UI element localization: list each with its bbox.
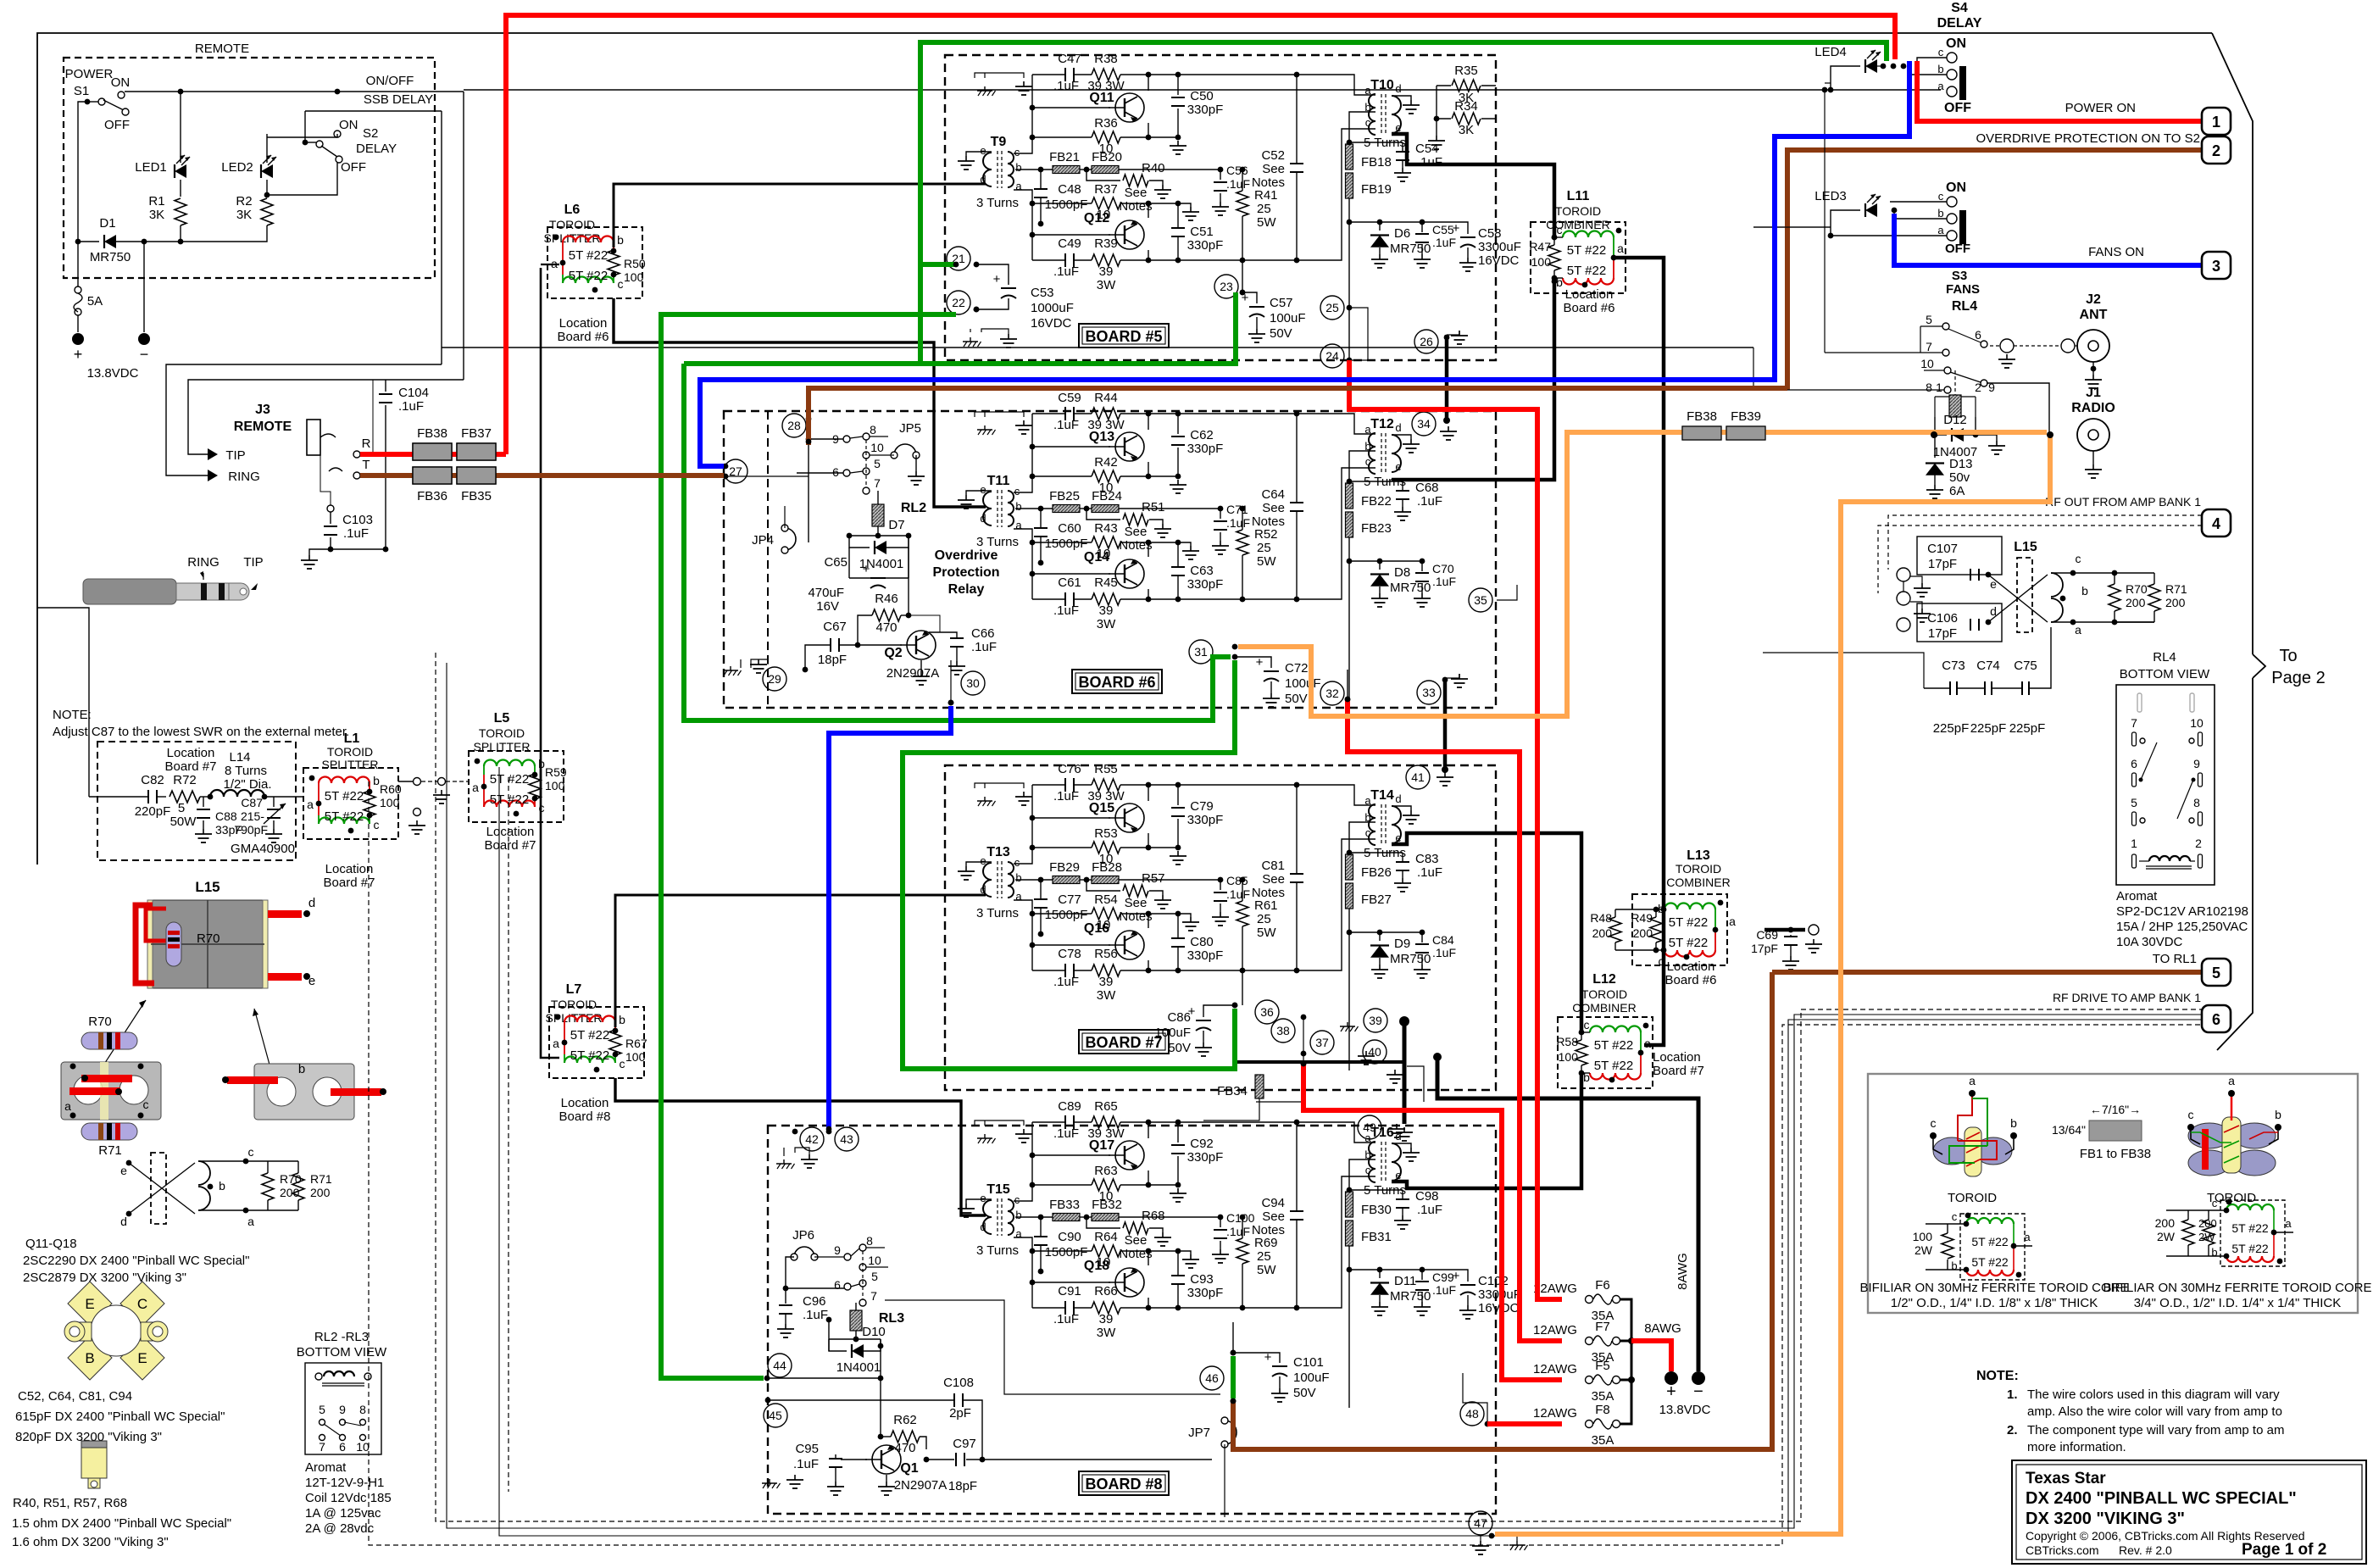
svg-text:2.: 2. [2007,1423,2018,1437]
svg-text:POWER: POWER [65,67,114,81]
svg-text:c: c [1931,1116,1937,1130]
svg-text:FB19: FB19 [1361,182,1392,197]
jumper JP5 [891,444,920,459]
wire LED1 [180,92,181,163]
box 1 [2202,108,2231,135]
battery - terminal [143,242,145,332]
svg-text:.1uF: .1uF [1053,1126,1079,1141]
transistor Q1 [872,1445,901,1474]
board #5 dashed outline [945,55,1496,360]
svg-text:5W: 5W [1257,554,1276,569]
svg-text:C50: C50 [1190,89,1214,103]
L6 top coil [562,242,564,251]
L15 red loops [136,905,154,983]
svg-text:b: b [1937,63,1943,75]
svg-text:C97: C97 [953,1437,976,1451]
svg-text:See: See [1125,896,1148,910]
ferrite bead FB33 [1053,1214,1080,1221]
resistor R57 [1086,880,1120,891]
svg-text:C89: C89 [1058,1099,1081,1114]
wire T secondary a to bottom bus [1014,900,1032,970]
capacitor C69 17pF [1764,928,1805,932]
wire green bottom rail [684,292,1236,364]
svg-text:C75: C75 [2014,659,2037,673]
svg-text:330pF: 330pF [1187,948,1224,963]
arrows to L15 [102,1000,146,1068]
svg-text:3 Turns: 3 Turns [976,1243,1019,1258]
svg-text:39: 39 [1099,264,1114,279]
svg-text:FB23: FB23 [1361,521,1392,536]
fuse F5 35A [1586,1376,1593,1384]
svg-text:b: b [373,774,380,787]
L11 top coil [1563,231,1614,237]
svg-text:5T #22: 5T #22 [1594,1059,1633,1073]
wire to Q1 [880,1339,881,1437]
svg-text:D8: D8 [1394,565,1410,580]
svg-text:Q12: Q12 [1084,211,1109,225]
capacitor C102 [1422,1270,1468,1282]
svg-text:RF OUT FROM AMP BANK 1: RF OUT FROM AMP BANK 1 [2045,495,2201,509]
svg-text:215-: 215- [241,809,264,823]
svg-text:9: 9 [834,1243,841,1257]
svg-text:TOROID: TOROID [479,726,525,740]
svg-text:3W: 3W [1097,1326,1116,1340]
svg-text:FB27: FB27 [1361,892,1392,907]
svg-text:Board #6: Board #6 [1665,973,1717,987]
svg-text:OVERDRIVE PROTECTION ON TO S2: OVERDRIVE PROTECTION ON TO S2 [1976,131,2201,146]
wire node 33 stub [1443,678,1448,770]
svg-text:Location: Location [1653,1050,1701,1065]
svg-text:1A @ 125vac: 1A @ 125vac [305,1506,381,1521]
ferrite bead FB35 [457,467,496,484]
svg-text:C88: C88 [215,809,237,823]
svg-text:10: 10 [870,441,884,454]
svg-text:8: 8 [2193,796,2200,809]
svg-text:7: 7 [1926,340,1932,353]
svg-text:10A 30VDC: 10A 30VDC [2116,935,2183,949]
wire ON/OFF rail [125,91,464,92]
svg-text:C80: C80 [1190,935,1214,949]
svg-text:D11: D11 [1394,1274,1416,1288]
svg-text:c: c [1014,485,1020,498]
svg-text:R65: R65 [1094,1099,1118,1114]
svg-text:R55: R55 [1094,762,1118,776]
svg-text:2: 2 [2195,837,2202,850]
TIP arrow [208,448,218,460]
svg-text:RING: RING [187,555,220,570]
box 3 [2202,252,2231,279]
svg-text:.1uF: .1uF [1053,79,1079,93]
svg-text:C61: C61 [1058,575,1081,590]
fuse 5A [75,286,81,293]
transformer T11 [983,492,992,525]
svg-text:FB28: FB28 [1092,860,1122,875]
inductor L14 coil [210,790,264,797]
node 36 [1255,1000,1279,1024]
ground at input transformer [966,491,992,495]
svg-text:C108: C108 [943,1376,974,1390]
svg-text:330pF: 330pF [1187,813,1224,827]
svg-text:Q16: Q16 [1084,921,1109,936]
svg-text:D6: D6 [1394,226,1410,241]
svg-text:3K: 3K [149,208,164,222]
wire T secondary c to top bus [1014,785,1032,864]
svg-text:Texas Star: Texas Star [2026,1470,2106,1487]
svg-text:R72: R72 [173,773,197,787]
svg-text:R58: R58 [1556,1035,1578,1048]
capacitor C67 18pF [839,644,858,646]
diode D9 [1349,932,1380,941]
svg-text:J2: J2 [2086,292,2101,307]
wire red node48 to F8 [1487,1421,1562,1426]
svg-text:.1uF: .1uF [1226,887,1250,901]
L6 bottom coil [562,275,564,283]
svg-text:T11: T11 [987,474,1010,488]
svg-text:Location: Location [1565,287,1614,302]
svg-text:+: + [863,562,870,576]
svg-text:C106: C106 [1927,611,1958,626]
wire FB to diode row [1348,537,1350,699]
board #7 dashed outline [945,765,1496,1090]
wire bottom rail [1032,1307,1065,1309]
svg-text:25: 25 [1257,541,1271,555]
ferrite bead FB19 [1346,173,1353,198]
capacitor C100 [1220,1217,1221,1227]
svg-text:FB32: FB32 [1092,1198,1122,1212]
capacitor C51 [1177,203,1179,227]
To Page 2 bracket [2212,33,2253,654]
svg-text:BOARD #6: BOARD #6 [1078,674,1155,691]
svg-text:b: b [298,1062,305,1076]
svg-text:BOTTOM VIEW: BOTTOM VIEW [2120,667,2210,681]
svg-text:35A: 35A [1592,1389,1614,1404]
svg-text:R67: R67 [625,1037,647,1050]
svg-text:5T #22: 5T #22 [325,809,364,824]
svg-text:34: 34 [1417,417,1431,431]
svg-text:FB31: FB31 [1361,1230,1392,1244]
ferrite bead FB38 [413,443,452,460]
resistor R49 [1650,917,1662,942]
capacitor C79 [1177,785,1179,805]
right winding schematic [2220,1200,2285,1266]
svg-text:39: 39 [1099,1312,1114,1326]
wire red top rail [506,15,1895,454]
svg-text:.1uF: .1uF [1417,155,1442,170]
svg-text:Rev. # 2.0: Rev. # 2.0 [2119,1543,2172,1557]
svg-text:C70: C70 [1432,562,1454,575]
svg-text:C: C [137,1296,147,1312]
svg-text:200: 200 [1592,926,1613,940]
svg-text:FB33: FB33 [1049,1198,1080,1212]
svg-text:R50: R50 [624,257,646,270]
wire green node31 link [684,364,1231,720]
svg-text:13.8VDC: 13.8VDC [1659,1403,1711,1417]
svg-text:LED2: LED2 [221,160,253,175]
capacitor C94 [1290,1210,1303,1212]
svg-text:c: c [374,818,380,831]
svg-text:REMOTE: REMOTE [234,420,292,434]
svg-text:D7: D7 [888,518,904,532]
wire brown node28 rail [809,388,1787,445]
svg-text:5: 5 [2212,965,2220,981]
svg-text:1: 1 [2212,114,2220,131]
svg-text:Location: Location [325,862,374,876]
svg-text:S4: S4 [1951,1,1968,15]
svg-text:3W: 3W [1097,617,1116,631]
svg-text:.1uF: .1uF [971,640,997,654]
svg-text:e: e [980,483,986,496]
svg-text:100: 100 [1559,1050,1579,1064]
node 25 [1320,296,1344,320]
svg-text:Board #8: Board #8 [559,1109,611,1124]
svg-text:d: d [1395,792,1401,805]
ferrite bead FB25 [1053,505,1080,513]
svg-text:C104: C104 [398,386,429,400]
resistor R59 [529,774,541,799]
node 35 [1469,588,1492,612]
svg-text:4: 4 [2212,515,2220,532]
box 5 [2202,959,2231,986]
resistor R58 [1576,1040,1587,1065]
wire D1 row [78,241,99,242]
svg-text:5T #22: 5T #22 [490,772,529,787]
L5 top coil [483,766,485,775]
svg-text:JP6: JP6 [792,1228,814,1243]
svg-text:d: d [1395,82,1401,95]
svg-text:L15: L15 [2014,540,2037,554]
svg-text:RL4: RL4 [1952,299,1977,314]
svg-text:Q11: Q11 [1089,91,1114,105]
svg-text:200: 200 [2198,1217,2217,1230]
svg-text:.1uF: .1uF [1417,494,1442,509]
svg-text:a: a [307,798,314,811]
svg-text:C48: C48 [1058,182,1081,197]
resistor R51 [1086,509,1120,520]
svg-text:Aromat: Aromat [305,1460,347,1475]
node 21 [947,247,970,270]
wire T out d ground [1392,806,1411,810]
resistors R70 R71 200 [2073,572,2117,574]
wire FB to diode row [1348,1246,1350,1408]
svg-text:5T #22: 5T #22 [1669,915,1708,930]
wire OVERDRIVE brown [1787,150,2205,390]
svg-text:5W: 5W [1257,215,1276,230]
svg-text:TOROID: TOROID [1948,1191,1997,1205]
svg-text:Board #7: Board #7 [1653,1064,1704,1078]
svg-text:.1uF: .1uF [1432,575,1456,588]
svg-text:Location: Location [167,746,215,760]
node 42 [800,1127,824,1151]
svg-text:18pF: 18pF [818,653,847,667]
svg-text:FB1 to FB38: FB1 to FB38 [2080,1147,2151,1161]
svg-text:100uF: 100uF [1154,1026,1191,1040]
svg-text:50V: 50V [1270,326,1292,341]
svg-text:Relay: Relay [948,582,985,597]
svg-text:+: + [993,272,1001,286]
capacitor C97 18pF [926,1459,954,1460]
svg-text:3K: 3K [236,208,252,222]
resistor R34 3K [1452,113,1481,125]
wire red node32 to F7 [1348,699,1562,1341]
svg-text:RL2: RL2 [901,501,926,515]
wire LED2 [266,134,268,163]
svg-text:16VDC: 16VDC [1478,1301,1520,1315]
svg-text:c: c [2188,1108,2194,1121]
svg-text:D9: D9 [1394,937,1410,951]
wire b line [1015,508,1053,509]
svg-text:2: 2 [2212,142,2220,159]
capacitor C56 [1220,170,1221,180]
fuse F7 35A [1586,1337,1593,1345]
capacitor C104 [360,380,386,454]
J3 ground [331,454,386,549]
svg-text:RADIO: RADIO [2071,401,2115,415]
svg-text:9: 9 [2193,757,2200,770]
svg-text:8AWG: 8AWG [1676,1253,1690,1290]
node 32 [1320,681,1344,705]
svg-text:3W: 3W [1097,278,1116,292]
L12 top coil [1590,1026,1641,1032]
svg-text:R71: R71 [98,1143,122,1158]
svg-text:FB29: FB29 [1049,860,1080,875]
svg-text:7: 7 [319,1440,325,1454]
node 37 [1310,1031,1334,1054]
svg-text:R37: R37 [1094,182,1118,197]
svg-text:5T #22: 5T #22 [1567,264,1606,278]
svg-text:FB22: FB22 [1361,494,1392,509]
svg-text:5T #22: 5T #22 [1594,1038,1633,1053]
svg-text:10: 10 [2190,716,2203,730]
svg-text:13/64": 13/64" [2052,1123,2086,1137]
svg-text:FB30: FB30 [1361,1203,1392,1217]
svg-text:Q2: Q2 [884,646,902,660]
svg-text:RL3: RL3 [879,1311,904,1326]
wire bottom rail [1032,970,1065,971]
diode D1 MR750 [104,235,116,248]
capacitor C62 [1177,414,1179,434]
svg-text:D10: D10 [862,1325,886,1339]
svg-text:24: 24 [1325,349,1339,363]
wire orange node31 to J1 loop [1238,432,2047,716]
svg-text:c: c [1014,856,1020,869]
svg-text:R63: R63 [1094,1164,1118,1178]
wire S1 common [78,102,87,242]
svg-text:42: 42 [805,1132,819,1146]
board #8 dashed outline [768,1126,1496,1514]
relay RL2 coil [872,504,884,526]
capacitor C80 [1177,914,1179,937]
svg-text:8: 8 [866,1234,873,1248]
ferrite bead FB24 [1092,505,1119,513]
node 33 [1417,681,1441,704]
wire FB to diode row [1348,198,1350,360]
svg-text:TOROID: TOROID [1676,862,1721,876]
node 45 [764,1404,787,1427]
svg-text:8: 8 [1926,381,1932,394]
L7 bottom coil [564,1054,565,1063]
capacitor C60 [1040,509,1042,527]
ferrite bead FB22 [1346,483,1353,509]
page border [37,33,2212,865]
svg-text:L1: L1 [344,731,360,746]
wire TIP link [188,380,464,454]
node 43 [835,1127,859,1151]
8AWG red feed [1631,1341,1671,1371]
wire top rail [1032,784,1065,786]
svg-text:b: b [1556,275,1563,289]
transistor package picture [68,1282,112,1326]
svg-text:TOROID: TOROID [551,998,597,1011]
svg-text:100: 100 [1913,1230,1933,1243]
wire red node37 to F5 [1303,1064,1562,1380]
svg-text:5T #22: 5T #22 [2231,1242,2269,1255]
capacitor C92 [1177,1122,1179,1143]
svg-text:e: e [980,144,986,157]
svg-text:5T #22: 5T #22 [1971,1255,2009,1269]
svg-text:C73: C73 [1942,659,1965,673]
svg-text:100: 100 [1531,255,1552,269]
ground at input transformer [966,152,992,156]
svg-text:7: 7 [874,476,881,490]
wire L7-c to board8 T15 [615,1078,986,1215]
svg-text:18pF: 18pF [948,1479,977,1493]
svg-text:+: + [1666,1382,1676,1401]
svg-text:200: 200 [280,1186,300,1199]
diode D13 [1934,435,1936,458]
board label BOARD #8 [1079,1471,1169,1495]
svg-text:FB37: FB37 [461,426,492,441]
svg-text:See: See [1262,872,1285,887]
capacitor C64 [1290,502,1303,503]
svg-text:FB36: FB36 [417,489,447,503]
svg-text:8: 8 [359,1403,366,1416]
capacitor C57 100uF [1242,292,1257,303]
svg-text:R51: R51 [1142,500,1165,514]
svg-text:8 Turns: 8 Turns [225,764,267,778]
svg-text:T: T [362,458,370,472]
L1 top coil [318,783,320,792]
ferrite bead FB27 [1346,883,1353,909]
svg-text:25: 25 [1257,912,1271,926]
svg-text:c: c [618,277,624,291]
relay RL3 coil [850,1310,862,1331]
svg-text:1N4001: 1N4001 [836,1360,881,1375]
svg-text:1500pF: 1500pF [1045,537,1088,551]
svg-text:b: b [1951,1259,1957,1272]
svg-text:2SC2879 DX 3200 "Viking 3": 2SC2879 DX 3200 "Viking 3" [23,1271,186,1285]
svg-text:+: + [1453,221,1460,236]
svg-text:COMBINER: COMBINER [1666,876,1730,889]
wire to L1 [280,796,303,798]
wire RL2 to Q2 [908,536,909,615]
svg-text:29: 29 [768,672,781,686]
resistor R69 [1237,1238,1248,1264]
svg-text:See: See [1125,1233,1148,1248]
battery main + - [1664,1371,1678,1385]
capacitor C52 [1290,163,1303,164]
svg-text:b: b [619,1013,625,1026]
fuse F8 35A [1586,1421,1593,1428]
capacitor C81 [1290,873,1303,875]
svg-text:S2: S2 [363,126,378,141]
resistor R61 [1237,901,1248,926]
svg-text:b: b [1015,1209,1021,1221]
svg-text:b: b [1015,871,1021,884]
svg-text:FB25: FB25 [1049,489,1080,503]
svg-text:R70: R70 [2126,582,2148,596]
svg-text:.1uF: .1uF [803,1308,828,1322]
wire top bus to T out a [1297,1122,1375,1143]
